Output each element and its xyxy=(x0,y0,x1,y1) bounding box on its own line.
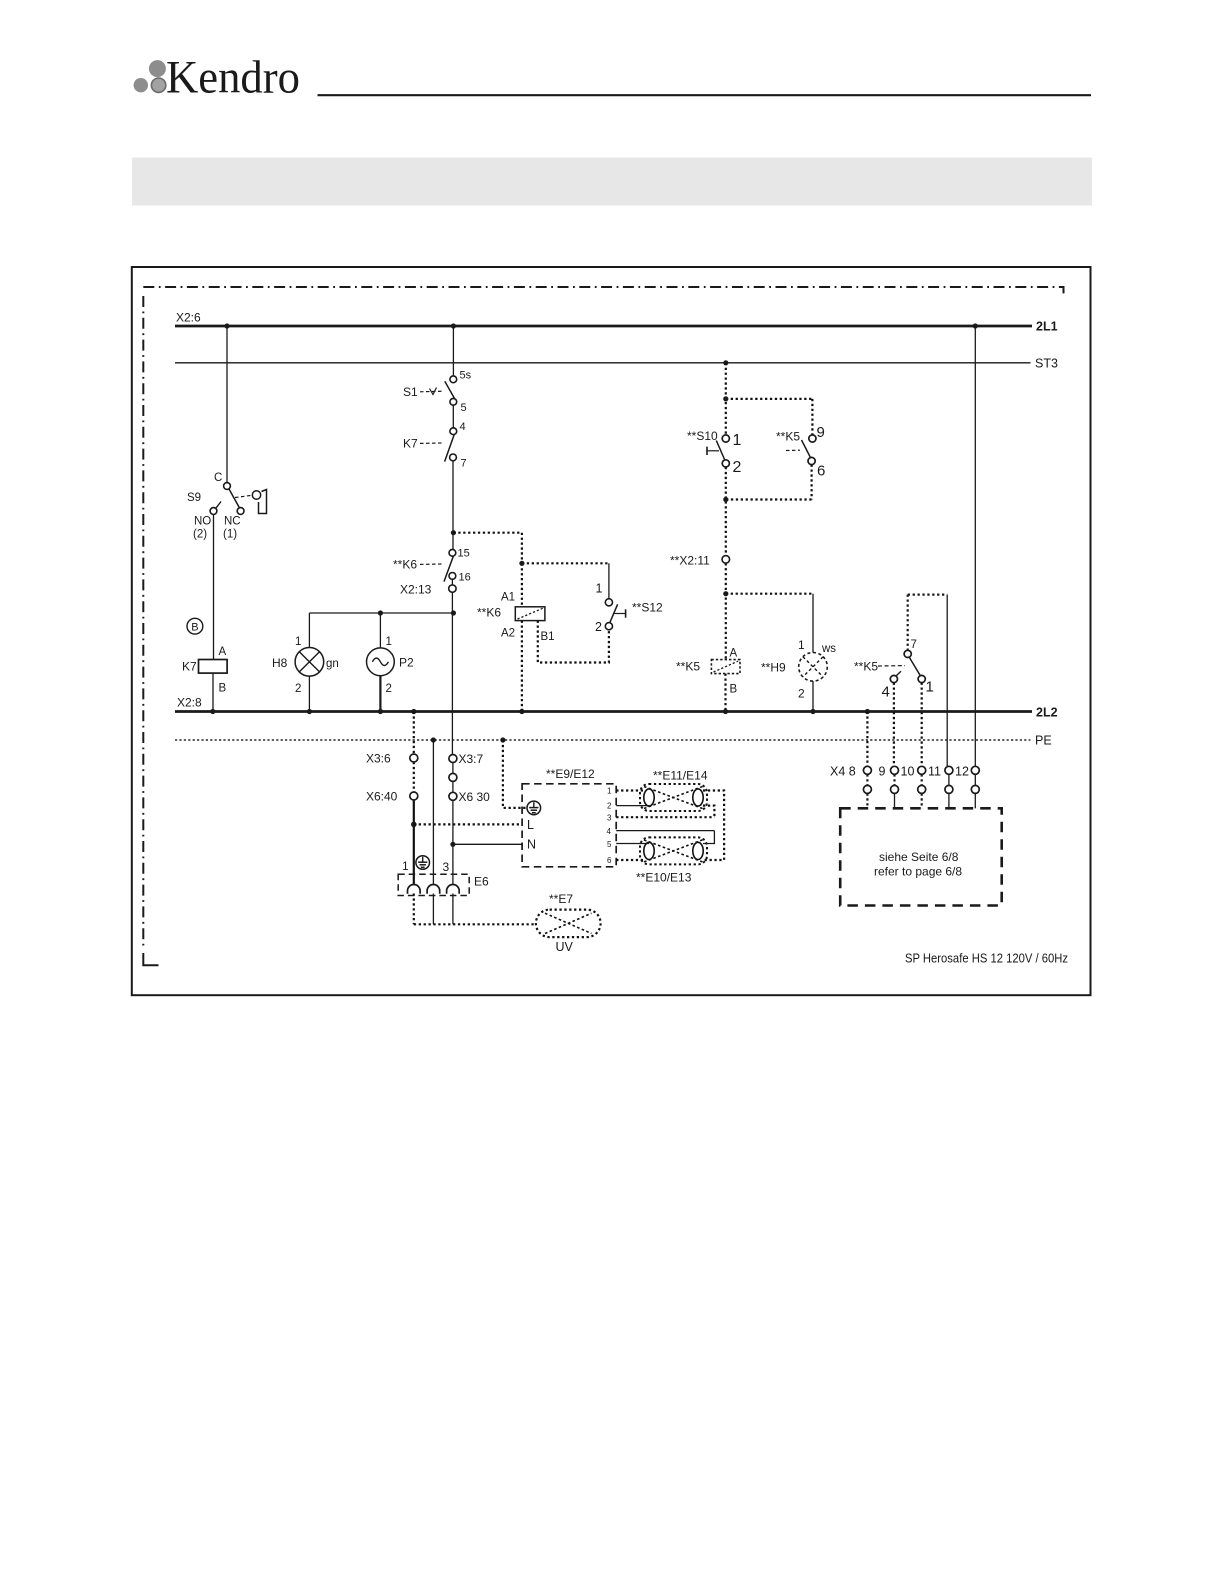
svg-text:4: 4 xyxy=(882,684,890,701)
lamp H8 xyxy=(295,613,324,712)
earth symbol at E6 xyxy=(416,856,430,870)
svg-text:A1: A1 xyxy=(501,592,515,604)
svg-text:2: 2 xyxy=(607,802,612,811)
svg-text:2: 2 xyxy=(595,620,602,634)
svg-text:**K6: **K6 xyxy=(393,558,417,572)
svg-text:siehe Seite 6/8: siehe Seite 6/8 xyxy=(879,850,959,864)
**E7 labels xyxy=(549,892,574,954)
relay coil **K5 xyxy=(676,648,740,696)
svg-text:2L1: 2L1 xyxy=(1036,320,1058,334)
svg-text:NC: NC xyxy=(224,516,241,528)
svg-text:15: 15 xyxy=(458,548,470,560)
wire B1 to S12 contact 2 xyxy=(538,621,609,663)
lamp **E7 xyxy=(536,910,601,938)
svg-text:3: 3 xyxy=(443,860,450,874)
contact **K6 xyxy=(420,549,456,581)
wire lamp loop right xyxy=(703,791,724,861)
svg-text:5: 5 xyxy=(461,402,467,414)
svg-text:1: 1 xyxy=(733,432,742,449)
socket contact 1 xyxy=(408,884,421,893)
wire contact7 loop to X4:11 xyxy=(946,595,948,767)
svg-text:ws: ws xyxy=(821,643,836,655)
dash-dot frame xyxy=(143,287,1063,965)
svg-text:1: 1 xyxy=(607,787,612,796)
svg-text:B: B xyxy=(191,622,198,634)
svg-text:1: 1 xyxy=(386,636,392,648)
wire dotted branch to K6 coil xyxy=(453,533,609,607)
wire pin4 xyxy=(616,830,714,832)
switch S9 xyxy=(210,483,266,515)
svg-text:2: 2 xyxy=(295,683,301,695)
svg-text:2: 2 xyxy=(798,687,805,701)
svg-text:E6: E6 xyxy=(474,875,489,889)
S9 labels xyxy=(187,472,241,541)
svg-text:refer to page 6/8: refer to page 6/8 xyxy=(874,865,962,879)
svg-text:gn: gn xyxy=(326,658,339,670)
svg-text:**K5: **K5 xyxy=(676,660,700,674)
socket contact 3 xyxy=(447,884,460,893)
connector X4:8 xyxy=(863,766,871,808)
svg-text:**E9/E12: **E9/E12 xyxy=(546,767,595,781)
wire X3:6/X6:40 line xyxy=(413,712,415,925)
svg-text:**K5: **K5 xyxy=(854,660,878,674)
svg-text:NO: NO xyxy=(194,516,211,528)
wire trunk 2L1 to S1 xyxy=(452,326,454,376)
wire pin3 xyxy=(616,816,714,818)
ballast box **E9/E12 xyxy=(522,767,616,867)
svg-text:A: A xyxy=(219,646,227,658)
title banner xyxy=(132,158,1092,206)
svg-text:11: 11 xyxy=(928,765,941,779)
header rule xyxy=(318,94,1092,96)
changeover switch **K5 (7/4/1) xyxy=(878,595,947,683)
node N junction xyxy=(450,842,455,847)
wire lamp loop pin4 xyxy=(703,831,714,844)
contact K7 labels xyxy=(403,421,467,470)
svg-text:5s: 5s xyxy=(460,370,472,382)
E9 pin labels 1-6 xyxy=(607,787,613,866)
svg-text:10: 10 xyxy=(901,765,915,779)
svg-text:N: N xyxy=(527,838,536,852)
svg-text:1: 1 xyxy=(596,582,603,596)
wire X3:7/X6:30 line circles xyxy=(449,755,457,801)
svg-text:B: B xyxy=(219,683,227,695)
svg-text:**X2:11: **X2:11 xyxy=(670,554,710,568)
svg-text:2L2: 2L2 xyxy=(1036,706,1058,720)
svg-text:X6:40: X6:40 xyxy=(366,790,398,804)
node branch junction xyxy=(519,561,524,566)
**S12 labels xyxy=(595,582,663,635)
svg-text:X2:8: X2:8 xyxy=(177,696,202,710)
node L junction xyxy=(411,822,417,828)
svg-text:X3:6: X3:6 xyxy=(366,752,391,766)
wire ST3 to S10/K5 branch xyxy=(726,363,813,435)
svg-text:PE: PE xyxy=(1035,734,1052,748)
S1 labels xyxy=(403,370,472,415)
svg-text:SP Herosafe HS 12 120V / 60Hz: SP Herosafe HS 12 120V / 60Hz xyxy=(905,951,1068,966)
wire 2L1 to S9 common xyxy=(226,326,228,483)
wire 2L1 to X4:12 xyxy=(974,326,976,766)
svg-text:16: 16 xyxy=(459,572,471,584)
svg-text:4: 4 xyxy=(460,421,466,433)
svg-text:7: 7 xyxy=(461,458,467,470)
changeover **K5 labels xyxy=(854,639,934,701)
svg-text:UV: UV xyxy=(556,940,574,954)
**E11/E14 label xyxy=(653,769,708,783)
bus 2L1 xyxy=(175,311,1058,334)
svg-text:X4 8: X4 8 xyxy=(830,765,856,779)
svg-text:4: 4 xyxy=(607,827,612,836)
connector X4:12 xyxy=(971,766,979,808)
relay coil K7 xyxy=(182,646,227,695)
wire E6 to E7 xyxy=(414,923,536,925)
wire H8/P2 top rail xyxy=(309,610,456,615)
connector X4:9 xyxy=(891,766,899,808)
node H9 branch dot xyxy=(723,591,728,596)
node 2L1 junction dots xyxy=(224,323,978,328)
X4 labels xyxy=(830,765,969,779)
contact K7 xyxy=(420,428,457,462)
svg-text:3: 3 xyxy=(607,814,612,823)
svg-text:S9: S9 xyxy=(187,492,201,504)
wire S9 NO to K7 coil xyxy=(213,515,215,660)
svg-text:ST3: ST3 xyxy=(1035,357,1058,371)
meter P2 xyxy=(367,613,395,712)
connector **X2:11 xyxy=(670,554,730,568)
bus 2L2 xyxy=(175,696,1058,720)
svg-text:B1: B1 xyxy=(541,631,555,643)
wire K7 coil to 2L2 xyxy=(212,673,214,711)
svg-text:A: A xyxy=(730,648,738,660)
svg-text:C: C xyxy=(214,472,222,484)
lamp **H9 xyxy=(799,594,828,712)
net ST3 line xyxy=(175,357,1058,371)
switch S1 xyxy=(420,376,457,405)
node branch dot xyxy=(723,396,728,401)
svg-text:B: B xyxy=(730,684,738,696)
X3:7/X6:30 labels xyxy=(459,752,491,804)
wire PE earth drop xyxy=(432,740,434,924)
connector X6:40 xyxy=(366,790,418,804)
svg-text:L: L xyxy=(527,818,534,832)
socket strip E6 xyxy=(398,874,489,895)
switch **S10 xyxy=(707,435,729,467)
**S10 labels xyxy=(687,429,742,476)
wire N to E9 box xyxy=(453,843,522,845)
svg-text:X6 30: X6 30 xyxy=(459,790,491,804)
P2 labels xyxy=(386,636,415,695)
H8 labels xyxy=(272,636,339,695)
lamp tube **E10/E13 xyxy=(640,837,707,864)
box siehe Seite 6/8 xyxy=(840,808,1002,905)
svg-text:**S10: **S10 xyxy=(687,429,718,443)
wire contact1 to X4:10 xyxy=(921,683,923,767)
wire L to E9 box xyxy=(414,823,522,825)
connector X4:10 xyxy=(918,766,926,808)
svg-text:**S12: **S12 xyxy=(632,601,663,615)
svg-text:9: 9 xyxy=(817,424,825,441)
node circled B xyxy=(187,618,203,634)
wire X6:30 down to E6 xyxy=(452,763,454,925)
node 2L2 junction dots xyxy=(210,709,870,714)
socket contact 2 xyxy=(427,884,440,893)
svg-text:6: 6 xyxy=(817,463,825,480)
svg-text:X2:13: X2:13 xyxy=(400,583,432,597)
wire S1 to K7 contact xyxy=(452,405,454,428)
connector X3:6 xyxy=(366,752,418,766)
earth symbol in E9 xyxy=(527,801,541,815)
svg-text:9: 9 xyxy=(879,765,886,779)
schematic border xyxy=(132,267,1091,995)
wire X2:13 trunk down xyxy=(451,592,453,754)
wire contact4 to X4:9 xyxy=(893,683,895,767)
wire pin2 xyxy=(616,805,649,807)
switch **S12 xyxy=(605,599,625,630)
svg-text:X2:6: X2:6 xyxy=(176,311,201,325)
connector X4:11 xyxy=(945,766,953,808)
contact **K6 labels xyxy=(393,548,471,584)
connector X2:13 xyxy=(400,579,456,596)
wire to S12 contact 1 xyxy=(608,563,610,598)
svg-text:1: 1 xyxy=(926,679,934,696)
node rejoin dot xyxy=(723,497,728,502)
wire pin6 xyxy=(616,859,644,861)
wire pin5 xyxy=(616,843,649,845)
svg-text:(2): (2) xyxy=(193,529,207,541)
svg-text:1: 1 xyxy=(402,859,409,873)
wire S10/K5 rejoin xyxy=(726,465,812,556)
wire K5 coil B to 2L2 xyxy=(724,674,726,712)
contact **K5 (9/6) xyxy=(786,435,816,465)
svg-text:S1: S1 xyxy=(403,385,418,399)
svg-text:1: 1 xyxy=(295,636,301,648)
wire pin1 xyxy=(616,789,644,791)
svg-text:7: 7 xyxy=(911,639,917,651)
svg-text:**E11/E14: **E11/E14 xyxy=(653,769,708,783)
relay coil **K6 xyxy=(477,592,555,644)
wire X2:11 down to K5 coil xyxy=(726,563,813,659)
svg-text:**H9: **H9 xyxy=(761,661,786,675)
svg-text:X3:7: X3:7 xyxy=(459,752,484,766)
svg-text:12: 12 xyxy=(955,765,969,779)
svg-text:Kendro: Kendro xyxy=(166,52,300,104)
svg-text:6: 6 xyxy=(607,856,612,865)
svg-text:1: 1 xyxy=(798,638,805,652)
svg-text:K7: K7 xyxy=(403,437,418,451)
wire K7 to K6 contact xyxy=(451,461,456,550)
svg-text:5: 5 xyxy=(607,840,612,849)
svg-text:K7: K7 xyxy=(182,660,197,674)
net PE line xyxy=(175,734,1052,748)
**E10/E13 label xyxy=(636,871,692,885)
svg-text:(1): (1) xyxy=(223,529,237,541)
Kendro logo xyxy=(134,52,300,104)
caption SP Herosafe xyxy=(905,951,1068,966)
svg-text:2: 2 xyxy=(386,683,392,695)
wire 2L2 to X4:8 xyxy=(866,712,868,767)
E6 pin labels xyxy=(402,859,450,874)
wire A2 to 2L2 xyxy=(521,621,523,712)
lamp tube **E11/E14 xyxy=(640,784,707,811)
svg-text:A2: A2 xyxy=(501,628,515,640)
contact **K5 labels xyxy=(776,424,825,480)
svg-text:H8: H8 xyxy=(272,656,288,670)
wire PE to E9 earth xyxy=(503,740,527,808)
svg-text:**K6: **K6 xyxy=(477,606,501,620)
svg-text:**E10/E13: **E10/E13 xyxy=(636,871,692,885)
svg-text:P2: P2 xyxy=(399,656,414,670)
svg-text:2: 2 xyxy=(733,459,742,476)
svg-text:**K5: **K5 xyxy=(776,430,800,444)
svg-text:**E7: **E7 xyxy=(549,892,573,906)
**H9 labels xyxy=(761,638,836,701)
